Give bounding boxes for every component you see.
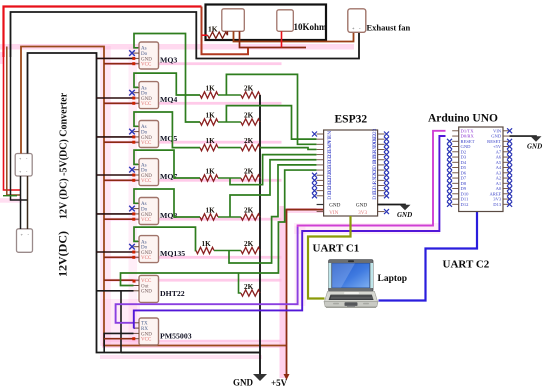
wire MQ3 to ESP32: [226, 106, 316, 140]
microcontroller U2 Arduino UNO: [452, 127, 509, 212]
svg-text:D0/RX: D0/RX: [461, 134, 475, 139]
wire UART C1 (ESP32 to laptop): [308, 216, 351, 299]
junction MQ135 VCC: [132, 256, 135, 259]
svg-text:GND: GND: [527, 143, 542, 151]
resistor 1K (MQ5 divider): [200, 144, 218, 150]
wire MQ7 As to divider: [134, 150, 200, 178]
wire MQ4 GND: [97, 97, 134, 99]
svg-text:Arduino UNO: Arduino UNO: [428, 113, 498, 125]
svg-text:PM55003: PM55003: [160, 332, 192, 341]
svg-text:2K: 2K: [244, 85, 254, 93]
junction MQ5 GND: [132, 135, 135, 138]
svg-text:GND: GND: [141, 290, 152, 295]
svg-text:Out: Out: [141, 284, 149, 289]
svg-text:D9: D9: [461, 186, 467, 191]
wire MQ4 As to divider: [134, 73, 200, 95]
svg-text:D10: D10: [461, 191, 470, 196]
svg-text:UART C2: UART C2: [443, 259, 490, 271]
junction DHT22 VCC: [133, 280, 136, 283]
svg-text:12V (DC) -5V(DC) Converter: 12V (DC) -5V(DC) Converter: [59, 92, 70, 219]
svg-text:A6: A6: [496, 155, 502, 160]
svg-text:A5: A5: [496, 160, 502, 165]
no-connect MQ4 Do: [129, 90, 135, 96]
svg-text:A3: A3: [496, 170, 502, 175]
resistor 2K (MQ5 divider): [241, 144, 260, 150]
wire MQ4 VCC: [104, 102, 134, 104]
wire MQ7 GND: [97, 174, 134, 176]
resistor 1K (MQ8 divider): [200, 214, 218, 220]
svg-text:GND: GND: [356, 203, 367, 209]
wire MQ135 GND: [97, 251, 134, 253]
wire black fan return (top): [11, 12, 360, 59]
svg-text:ESP32: ESP32: [335, 114, 368, 126]
svg-text:2K: 2K: [244, 137, 254, 145]
svg-text:A7: A7: [496, 149, 502, 154]
svg-text:Do: Do: [141, 169, 148, 174]
wire MQ8 As to divider: [134, 189, 200, 217]
svg-text:MQ5: MQ5: [160, 134, 177, 143]
wire MQ5 to ESP32: [260, 148, 317, 150]
wire PM5003 TX lower (purple): [116, 227, 298, 323]
sensor MQ7: [134, 159, 159, 186]
no-connect MQ8 Do: [129, 206, 135, 212]
svg-text:+5V: +5V: [271, 378, 288, 388]
wire divider junction (MQ4): [218, 94, 241, 96]
svg-text:10Kohm: 10Kohm: [294, 22, 328, 32]
wire MQ5 GND: [97, 136, 134, 138]
wire MQ5 VCC: [104, 141, 134, 143]
svg-text:D13: D13: [327, 190, 333, 200]
svg-text:MQ3: MQ3: [160, 56, 177, 65]
svg-text:GND: GND: [233, 378, 254, 388]
svg-text:DHT22: DHT22: [160, 289, 185, 298]
sensor MQ135: [134, 236, 159, 263]
wire module pin B to rail: [240, 31, 307, 47]
svg-text:GND: GND: [329, 203, 340, 209]
svg-text:RESET: RESET: [461, 139, 475, 144]
fan control enclosure: [206, 5, 327, 41]
junction MQ3 GND: [132, 57, 135, 60]
no-connect marks Arduino: [447, 128, 512, 207]
svg-text:D3: D3: [461, 155, 467, 160]
junction MQ135 GND: [132, 251, 135, 254]
svg-text:3V3: 3V3: [358, 210, 367, 216]
wire DHT GND drop: [120, 291, 122, 353]
wire GND bottom rail: [121, 352, 260, 354]
svg-text:GND: GND: [397, 211, 412, 219]
wire PM5003 TX upper (magenta to Arduino D1/TX): [298, 131, 446, 227]
wire brown fan feed vertical: [202, 7, 249, 55]
wire +5V rail: [287, 210, 324, 346]
svg-text:VCC: VCC: [141, 279, 152, 284]
svg-text:D7: D7: [461, 176, 467, 181]
svg-text:Do: Do: [141, 208, 148, 213]
wire PM5003 RX (violet to Arduino D0/RX): [134, 136, 446, 328]
wire DHT22 Out to ESP32: [121, 170, 317, 285]
svg-text:VCC: VCC: [141, 218, 152, 223]
svg-text:GND: GND: [461, 144, 472, 149]
svg-text:2K: 2K: [244, 240, 254, 248]
wire divider junction (MQ8): [218, 216, 241, 218]
svg-text:D12: D12: [461, 202, 470, 207]
svg-text:Laptop: Laptop: [378, 274, 408, 284]
resistor 2K (MQ7 divider): [241, 175, 260, 181]
svg-text:VCC: VCC: [141, 338, 152, 343]
wire MQ3 GND: [97, 57, 134, 59]
svg-text:+5V: +5V: [493, 144, 502, 149]
svg-text:A2: A2: [496, 176, 502, 181]
junction MQ8 GND: [132, 212, 135, 215]
junction MQ7 VCC: [132, 179, 135, 182]
wire divider junction (MQ3): [218, 121, 241, 123]
sensor MQ4: [134, 82, 159, 109]
wire MQ8 GND: [97, 213, 134, 215]
wire resistor to module pin: [202, 31, 228, 35]
wire green stub (converter): [3, 195, 17, 197]
sensor MQ3: [134, 42, 159, 69]
ground main: [253, 374, 267, 381]
svg-text:GND: GND: [141, 213, 152, 218]
svg-text:MQ4: MQ4: [160, 95, 177, 104]
svg-text:As: As: [141, 202, 147, 207]
wire GND collector vertical: [259, 95, 261, 374]
no-connect MQ135 Do: [129, 244, 135, 250]
svg-text:GND: GND: [141, 251, 152, 256]
svg-text:RESET: RESET: [487, 139, 501, 144]
wire MQ7 VCC: [104, 179, 134, 181]
svg-text:D5: D5: [461, 165, 467, 170]
resistor 2K (MQ8 divider): [241, 214, 260, 220]
svg-text:D1/TX: D1/TX: [461, 128, 475, 133]
svg-text:VCC: VCC: [141, 256, 152, 261]
svg-text:D13: D13: [493, 202, 502, 207]
wire PM5003 GND: [104, 333, 133, 352]
wire MQ3 As to divider: [134, 34, 200, 123]
svg-text:1K: 1K: [202, 240, 212, 248]
wire MQ5 As to divider: [134, 112, 200, 148]
svg-text:D15: D15: [372, 190, 378, 200]
wire ESP32 GND to ground: [378, 205, 405, 207]
svg-text:D8: D8: [461, 181, 467, 186]
sensor DHT22: [134, 275, 159, 302]
wire brown VCC bus: [21, 47, 287, 346]
resistor 1K (MQ135 divider): [196, 247, 214, 253]
wire divider junction (MQ7): [218, 177, 241, 179]
svg-text:1K: 1K: [206, 207, 216, 215]
svg-text:MQ135: MQ135: [160, 249, 185, 258]
wire DHT22 GND: [97, 290, 134, 292]
svg-text:D6: D6: [461, 170, 467, 175]
wire brown left edge: [7, 47, 21, 196]
wire black left edge: [11, 57, 28, 200]
junction PM5003 VCC: [132, 337, 135, 340]
svg-text:1K: 1K: [206, 112, 216, 120]
svg-text:As: As: [141, 86, 147, 91]
ground Arduino: [531, 136, 542, 142]
svg-text:VIN: VIN: [493, 128, 502, 133]
svg-text:D11: D11: [461, 197, 469, 202]
svg-text:A1: A1: [496, 181, 502, 186]
svg-text:Do: Do: [141, 92, 148, 97]
wire DHT22 2K branch: [239, 273, 241, 293]
sensor MQ8: [134, 198, 159, 225]
svg-text:Exhaust fan: Exhaust fan: [367, 23, 411, 33]
svg-text:UART C1: UART C1: [313, 243, 360, 255]
no-connect MQ3 Do: [129, 50, 135, 56]
svg-text:GND: GND: [141, 174, 152, 179]
svg-text:VCC: VCC: [141, 102, 152, 107]
junction MQ4 GND: [132, 97, 135, 100]
svg-text:RX2: RX2: [372, 174, 378, 184]
resistor 2K (MQ4 divider): [241, 92, 260, 98]
wire DHT22 VCC: [104, 279, 134, 281]
svg-text:A4: A4: [496, 165, 502, 170]
wire pink power-net highlight: [0, 44, 440, 378]
wire MQ8 to ESP32: [230, 160, 317, 217]
resistor 1K (MQ7 divider): [200, 175, 218, 181]
svg-text:12V(DC): 12V(DC): [56, 231, 70, 277]
battery 12V(DC): [17, 229, 33, 253]
wire MQ135 to ESP32: [229, 165, 317, 263]
svg-text:As: As: [141, 125, 147, 130]
power +5V terminal: [284, 346, 290, 381]
junction MQ4 VCC: [132, 102, 135, 105]
svg-text:1K: 1K: [206, 85, 216, 93]
svg-text:VCC: VCC: [141, 141, 152, 146]
svg-text:Do: Do: [141, 246, 148, 251]
wire divider junction (MQ5): [218, 147, 241, 149]
wire MQ7 to ESP32: [230, 155, 317, 185]
module fan speed controller: [222, 9, 245, 32]
resistor 2K (MQ135 divider): [241, 247, 260, 253]
svg-text:1K: 1K: [206, 137, 216, 145]
svg-text:A0: A0: [496, 186, 502, 191]
no-connect MQ5 Do: [129, 129, 135, 135]
svg-text:VCC: VCC: [141, 63, 152, 68]
junction MQ7 GND: [132, 174, 135, 177]
computer laptop: [324, 260, 378, 308]
resistor 1K (MQ3 divider): [200, 119, 218, 125]
svg-text:VIN: VIN: [329, 210, 338, 216]
svg-text:GND: GND: [141, 136, 152, 141]
wire red battery feed (top): [4, 7, 202, 58]
resistor 2K (DHT22 pulldown): [241, 290, 260, 296]
svg-text:VCC: VCC: [141, 179, 152, 184]
svg-text:2K: 2K: [244, 112, 254, 120]
svg-text:1K: 1K: [206, 168, 216, 176]
svg-text:GND: GND: [141, 57, 152, 62]
svg-text:RX: RX: [141, 327, 148, 332]
junction MQ3 VCC: [132, 62, 135, 65]
svg-text:AREF: AREF: [489, 191, 501, 196]
sensor MQ5: [134, 121, 159, 148]
wire black GND bus: [28, 53, 261, 353]
resistor 2K (MQ3 divider): [241, 119, 260, 125]
wire module pin A to rail: [234, 30, 354, 42]
svg-text:GND: GND: [141, 97, 152, 102]
wire converter to battery: [21, 176, 28, 229]
svg-text:As: As: [141, 240, 147, 245]
ground ESP32: [400, 205, 411, 211]
microcontroller U1 ESP32: [317, 128, 385, 216]
wire PM5003 VCC: [104, 338, 134, 340]
svg-text:3V3: 3V3: [493, 197, 502, 202]
sensor PM55003: [134, 318, 159, 345]
svg-text:Do: Do: [141, 131, 148, 136]
module 12V-5V converter: [15, 154, 32, 177]
svg-text:D4: D4: [461, 160, 467, 165]
wire MQ3 VCC: [104, 63, 134, 65]
no-connect marks ESP32: [312, 132, 389, 215]
svg-text:TX: TX: [141, 322, 148, 327]
svg-text:As: As: [141, 163, 147, 168]
motor exhaust fan: [348, 9, 366, 33]
junction MQ8 VCC: [132, 218, 135, 221]
svg-text:Do: Do: [141, 52, 148, 57]
svg-text:2K: 2K: [244, 207, 254, 215]
wire red left edge: [4, 57, 21, 190]
module potentiometer 10Kohm: [277, 10, 294, 32]
resistor 1K (fan box): [208, 32, 228, 38]
wire MQ135 VCC: [104, 256, 134, 258]
svg-text:As: As: [141, 47, 147, 52]
wire ESP32 VIN stub: [287, 209, 317, 211]
wire divider junction (MQ135): [214, 250, 241, 252]
svg-text:GND: GND: [141, 332, 152, 337]
junction MQ5 VCC: [132, 141, 135, 144]
wire MQ4 to ESP32: [226, 74, 316, 144]
wire pot pin to rail: [281, 31, 283, 47]
wire MQ135 As to divider: [134, 227, 196, 250]
svg-text:D2: D2: [461, 149, 467, 154]
wire UART C2 (Arduino to laptop): [379, 212, 478, 301]
svg-text:2K: 2K: [244, 283, 254, 291]
no-connect MQ7 Do: [129, 167, 135, 173]
wire MQ8 VCC: [104, 218, 134, 220]
svg-text:GND: GND: [491, 134, 502, 139]
wire Arduino GND to ground: [510, 135, 537, 138]
resistor 1K (MQ4 divider): [200, 92, 218, 98]
svg-text:2K: 2K: [244, 168, 254, 176]
